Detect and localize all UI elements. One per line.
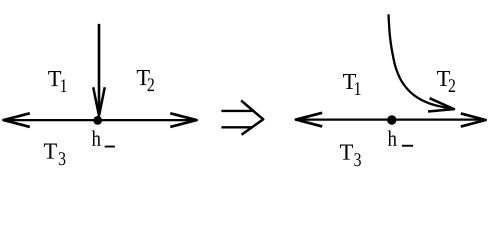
left diagram vertical arrowhead xyxy=(93,87,105,116)
implies arrow bottom bar xyxy=(221,126,251,128)
label T3 left xyxy=(44,144,57,159)
label T3 right xyxy=(340,145,353,160)
label h- left xyxy=(92,130,101,145)
left diagram left arrowhead xyxy=(4,113,30,127)
implies arrow chevron xyxy=(241,101,263,135)
label T1 right xyxy=(343,74,356,89)
label T1 left xyxy=(48,71,61,86)
curve arrowhead xyxy=(428,98,454,111)
label T2 left xyxy=(137,70,150,85)
wire: curved trajectory into junction xyxy=(389,14,455,109)
implies arrow top bar xyxy=(221,110,252,112)
wire: right diagram horizontal line xyxy=(297,118,484,120)
wire: left diagram horizontal line xyxy=(5,119,195,121)
label T2 right xyxy=(437,71,450,86)
label h- right xyxy=(388,130,397,145)
right diagram left arrowhead xyxy=(296,113,322,127)
right diagram right arrowhead xyxy=(461,113,486,126)
node h-: left junction dot xyxy=(93,116,102,125)
wire: left diagram vertical arrow stem xyxy=(98,24,101,112)
node h-: right junction dot xyxy=(387,115,396,124)
left diagram right arrowhead xyxy=(170,113,196,127)
